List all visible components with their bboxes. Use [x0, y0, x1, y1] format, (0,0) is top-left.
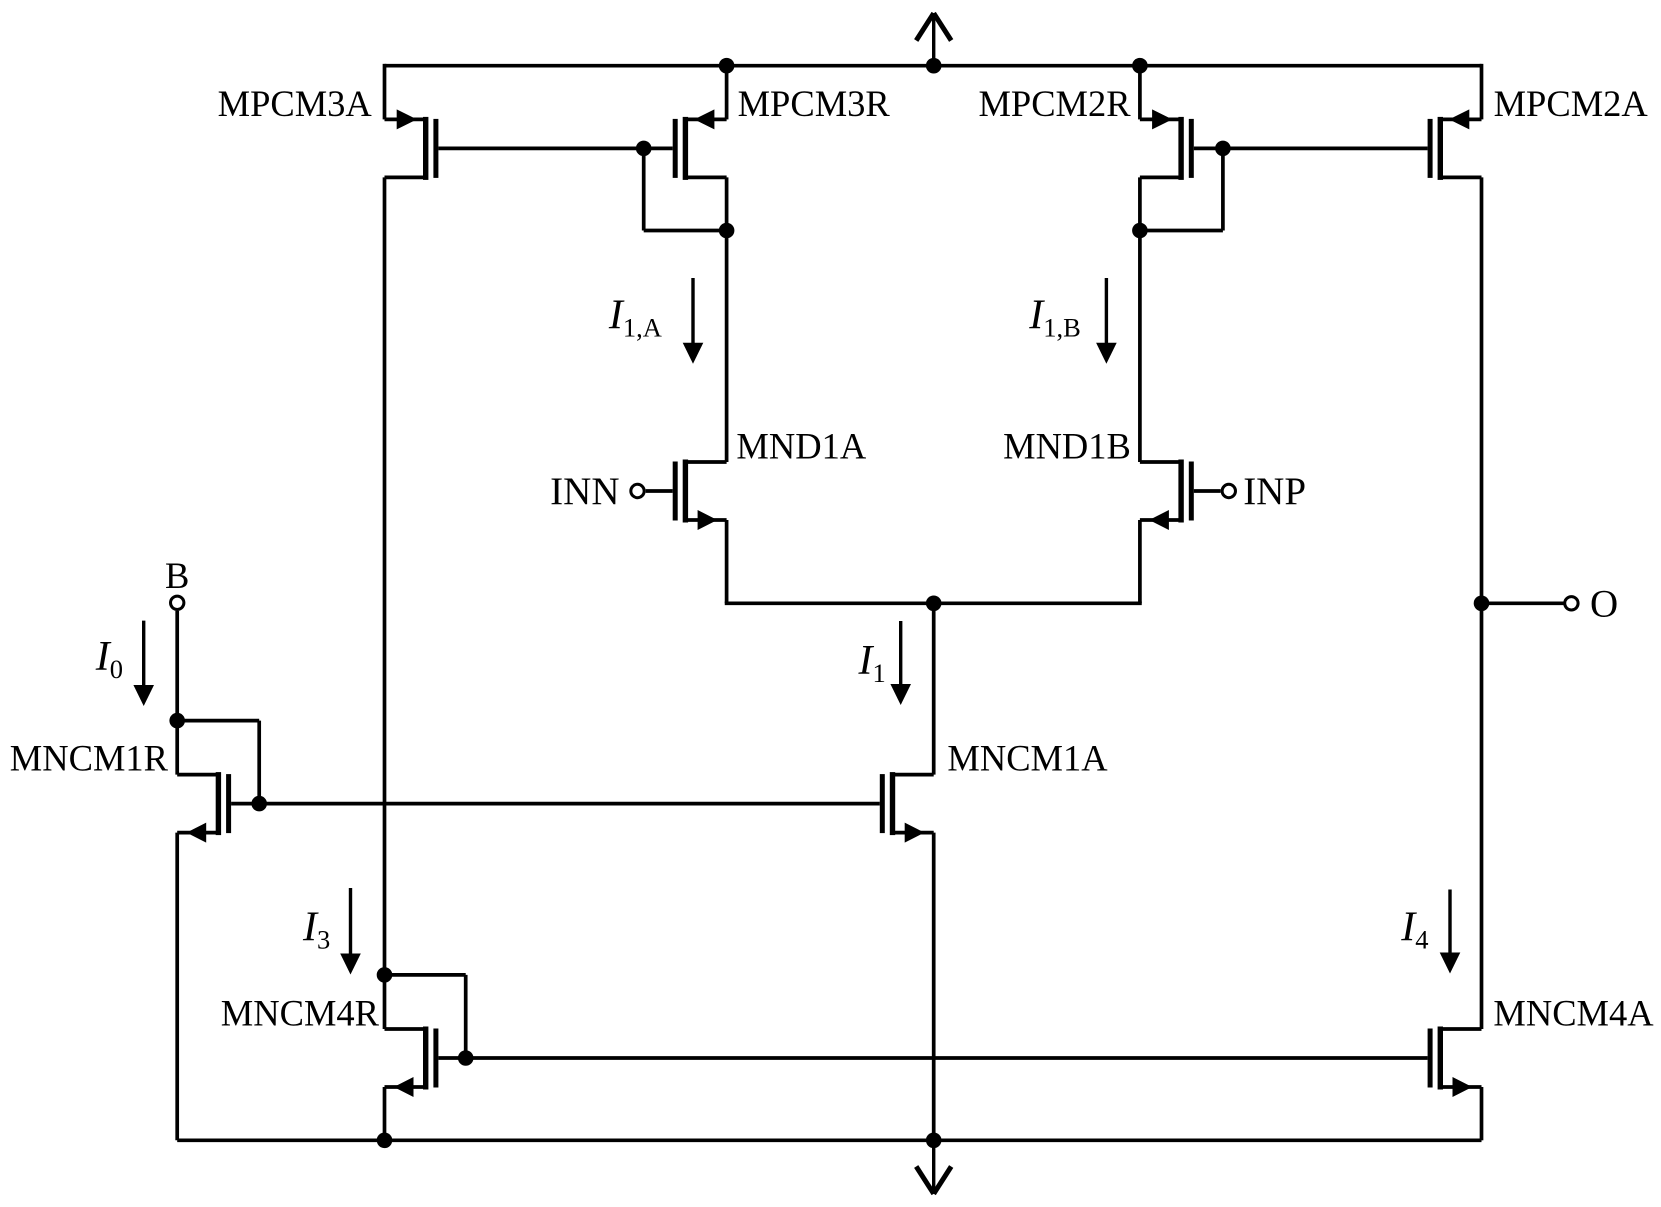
terminal INP — [1222, 484, 1235, 497]
wire MPCM2A source to VDD rail — [1480, 64, 1484, 120]
svg-text:B: B — [165, 555, 189, 596]
wire gate net MPCM2R-MPCM2A — [1194, 147, 1428, 151]
junction dot MNCM4R source / VSS rail — [377, 1133, 393, 1149]
junction dot left pmos gate net — [636, 141, 652, 157]
pmos MPCM2R — [1140, 109, 1194, 179]
wire MND1A source down — [725, 520, 729, 603]
current arrow I0 — [142, 621, 145, 696]
svg-text:O: O — [1590, 583, 1618, 626]
wire INN to MND1A gate — [646, 489, 673, 493]
wire left pmos diode loop horizontal — [644, 229, 727, 233]
svg-text:MPCM3A: MPCM3A — [218, 83, 373, 124]
wire MPCM3R drain to MND1A drain (net I1A) — [725, 177, 729, 462]
VSS rail wire — [177, 1138, 1481, 1142]
terminal B — [171, 596, 184, 609]
wire MNCM4R diode loop horizontal — [385, 973, 466, 977]
svg-text:MND1B: MND1B — [1003, 426, 1131, 467]
wire MNCM4R diode loop vertical — [464, 975, 468, 1058]
svg-text:INN: INN — [550, 470, 619, 513]
nmos MND1A — [673, 460, 727, 531]
nmos MNCM1R — [177, 772, 231, 843]
current arrow I3 — [349, 888, 352, 965]
wire MND1B source to tail node — [934, 601, 1142, 605]
wire MNCM4R source to VSS rail — [383, 1087, 387, 1140]
junction dot VDD rail / MPCM2R source — [1132, 58, 1148, 74]
wire MPCM3A source to VDD rail — [383, 64, 387, 120]
junction dot MNCM1R gate node — [251, 796, 267, 812]
current arrow I1,B — [1105, 278, 1108, 354]
nmos MNCM4R — [385, 1027, 439, 1098]
nmos MNCM1A — [880, 772, 934, 843]
svg-text:MND1A: MND1A — [736, 426, 866, 467]
svg-text:INP: INP — [1243, 470, 1306, 513]
wire tail node to MNCM1A drain — [932, 603, 936, 774]
svg-text:MPCM3R: MPCM3R — [738, 83, 891, 124]
wire gate net MPCM3A-MPCM3R — [438, 147, 672, 151]
svg-text:MPCM2R: MPCM2R — [978, 83, 1131, 124]
svg-text:MNCM4A: MNCM4A — [1493, 992, 1654, 1033]
VSS supply arrow — [916, 1140, 951, 1194]
wire MPCM2A drain down to MNCM4A drain (net O) — [1480, 177, 1484, 1029]
junction dot VDD rail / supply arrow — [926, 58, 942, 74]
wire MPCM3A drain down to node n3 — [383, 177, 387, 975]
wire right pmos diode loop horizontal — [1140, 229, 1223, 233]
VDD supply arrow — [916, 13, 951, 65]
current arrow I1 — [899, 621, 902, 695]
svg-text:MNCM4R: MNCM4R — [221, 992, 380, 1033]
wire left pmos diode loop vertical — [642, 148, 646, 230]
junction dot right pmos gate net — [1215, 141, 1231, 157]
terminal O — [1565, 597, 1578, 610]
svg-text:MPCM2A: MPCM2A — [1494, 83, 1649, 124]
terminal INN — [631, 484, 644, 497]
VDD rail wire — [385, 64, 1482, 68]
wire gate net MNCM4R-MNCM4A — [438, 1056, 1427, 1060]
nmos MNCM4A — [1428, 1027, 1482, 1098]
wire B terminal down to MNCM1R drain — [175, 611, 179, 775]
junction dot MPCM2R gate-drain tie — [1132, 223, 1148, 239]
wire to output terminal O — [1482, 601, 1565, 605]
current arrow I4 — [1448, 890, 1451, 964]
junction dot B node — [169, 713, 185, 729]
junction dot MPCM3R gate-drain tie — [719, 223, 735, 239]
wire MNCM1R source to VSS rail — [175, 833, 179, 1141]
wire MPCM2R drain to MND1B drain (net I1B) — [1138, 177, 1142, 462]
pmos MPCM2A — [1428, 109, 1482, 179]
wire gate net MNCM1R-MNCM1A — [231, 802, 880, 806]
junction dot tail node — [926, 596, 942, 612]
junction dot MNCM4R drain node — [377, 967, 393, 983]
wire MNCM4R drain — [383, 975, 387, 1029]
wire MPCM3R source to VDD rail — [725, 66, 729, 120]
junction dot output tap — [1474, 596, 1490, 612]
wire MND1A source to tail node — [725, 601, 934, 605]
wire MND1B source down — [1138, 520, 1142, 603]
pmos MPCM3R — [673, 109, 727, 179]
pmos MPCM3A — [385, 109, 439, 179]
junction dot VDD rail / MPCM3R source — [719, 58, 735, 74]
wire MNCM1R gate-drain tie horizontal — [177, 719, 259, 723]
junction dot MNCM4R gate node — [458, 1050, 474, 1066]
wire MPCM2R source to VDD rail — [1138, 66, 1142, 120]
nmos MND1B — [1140, 460, 1194, 531]
current arrow I1,A — [691, 278, 694, 354]
wire MNCM1R gate-drain tie vertical — [257, 721, 261, 804]
junction dot MNCM1A source / VSS rail — [926, 1133, 942, 1149]
svg-text:MNCM1R: MNCM1R — [10, 738, 169, 779]
svg-text:MNCM1A: MNCM1A — [947, 738, 1108, 779]
wire MNCM4A source to VSS rail — [1480, 1087, 1484, 1140]
wire MND1B gate to INP — [1194, 489, 1221, 493]
wire MNCM1A source to VSS rail — [932, 833, 936, 1141]
wire right pmos diode loop vertical — [1221, 148, 1225, 230]
